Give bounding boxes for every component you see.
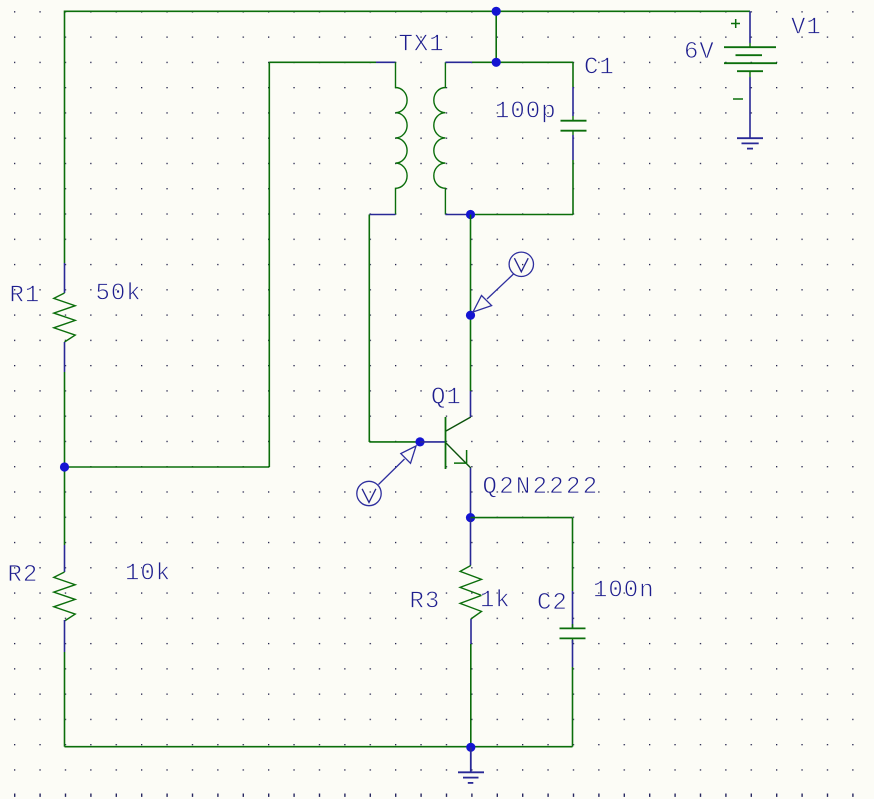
ground circuit bbox=[458, 747, 484, 783]
svg-text:100n: 100n bbox=[593, 578, 655, 605]
node collector probe junction bbox=[466, 311, 475, 320]
plus sign bbox=[731, 19, 740, 28]
bottom grid row dashes bbox=[14, 794, 854, 797]
svg-text:6V: 6V bbox=[684, 39, 715, 66]
wire R3 bottom bbox=[470, 644, 472, 747]
base pin bbox=[420, 441, 446, 443]
wire C2 top vertical bbox=[572, 518, 574, 591]
probe V base bbox=[357, 446, 416, 506]
wire emitter to C2 bbox=[471, 517, 573, 519]
wire R1 bottom to node bbox=[64, 372, 66, 467]
probe V collector letter bbox=[514, 258, 528, 272]
plates bbox=[724, 46, 776, 48]
ground battery bbox=[737, 138, 763, 148]
node tank bottom junction bbox=[466, 210, 475, 219]
svg-text:R2: R2 bbox=[8, 562, 39, 589]
svg-text:R1: R1 bbox=[10, 283, 41, 310]
wire tank bottom bbox=[471, 214, 574, 216]
collector pin bbox=[470, 391, 472, 417]
minus sign bbox=[733, 98, 743, 100]
svg-text:TX1: TX1 bbox=[399, 32, 445, 59]
transformer TX1 bbox=[369, 62, 472, 214]
collector stroke bbox=[446, 417, 471, 431]
wire base horizontal bbox=[369, 441, 420, 443]
emitter stroke bbox=[446, 443, 471, 468]
wire drop from top rail to tank bbox=[495, 11, 497, 62]
node tank top junction bbox=[492, 58, 501, 67]
svg-text:C2: C2 bbox=[537, 590, 568, 617]
base bar bbox=[445, 417, 447, 469]
svg-text:1k: 1k bbox=[480, 588, 511, 615]
pin top-left bbox=[376, 61, 396, 63]
wire top rail bbox=[65, 10, 751, 12]
resistor R3 bbox=[460, 518, 481, 644]
pin bottom-left bbox=[369, 214, 395, 216]
wire bottom rail bbox=[65, 746, 573, 748]
node emitter junction bbox=[466, 513, 475, 522]
node bottom rail junction bbox=[466, 743, 475, 752]
transistor Q1 bbox=[420, 391, 471, 518]
svg-text:10k: 10k bbox=[125, 561, 171, 588]
wire feedback vertical bbox=[268, 62, 270, 467]
svg-text:50k: 50k bbox=[96, 281, 142, 308]
capacitor C2 bbox=[560, 591, 586, 667]
emitter pin bbox=[470, 468, 472, 518]
primary coil bbox=[396, 62, 408, 214]
battery V1 bbox=[724, 11, 777, 138]
wire C2 bottom vertical bbox=[572, 667, 574, 747]
svg-text:Q1: Q1 bbox=[431, 385, 462, 412]
svg-text:R3: R3 bbox=[410, 589, 441, 616]
probe V collector bbox=[473, 252, 534, 312]
resistor R2 bbox=[54, 467, 75, 747]
secondary coil bbox=[434, 62, 446, 214]
node top rail junction bbox=[492, 7, 501, 16]
svg-text:Q2N2222: Q2N2222 bbox=[483, 474, 600, 501]
pin top-right bbox=[445, 61, 472, 63]
svg-text:100p: 100p bbox=[495, 99, 557, 126]
svg-text:C1: C1 bbox=[584, 55, 615, 82]
wire collector net bbox=[470, 215, 472, 392]
probe V base letter bbox=[362, 489, 376, 503]
wire node to feedback branch bbox=[65, 466, 270, 468]
pin bottom-right bbox=[445, 214, 470, 216]
resistor R1 bbox=[54, 263, 75, 372]
capacitor C1 bbox=[561, 62, 587, 214]
emitter arrow bbox=[454, 450, 467, 463]
wire tank top bbox=[472, 61, 573, 63]
svg-text:V1: V1 bbox=[791, 15, 822, 42]
node base junction bbox=[415, 437, 424, 446]
wire feedback top horizontal to TX1 bbox=[269, 61, 376, 63]
wire left vertical from top rail to R1 bbox=[64, 11, 66, 264]
node divider junction bbox=[60, 462, 69, 471]
wire TX1 secondary bottom-left to base bbox=[368, 215, 370, 443]
